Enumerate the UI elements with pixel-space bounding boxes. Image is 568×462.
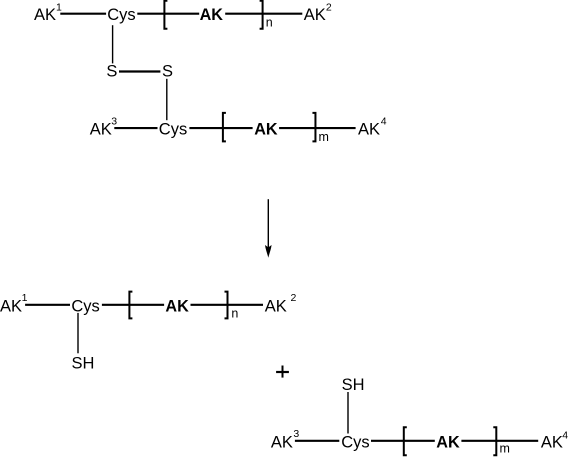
- wire Cys to AK repeat: [102, 304, 164, 306]
- chain 1: left bracket: [164, 1, 167, 29]
- svg-text:AK: AK: [271, 433, 293, 451]
- wire AK1 to Cys: [25, 304, 70, 306]
- disulfide bond S1-S2: [119, 70, 160, 72]
- svg-text:S: S: [106, 63, 117, 81]
- chain 2: right bracket: [312, 113, 315, 141]
- svg-text:n: n: [266, 15, 273, 29]
- svg-text:AK: AK: [358, 121, 380, 139]
- svg-text:S: S: [162, 63, 173, 81]
- product 2: bond SH to Cys: [347, 392, 349, 434]
- svg-text:AK: AK: [265, 297, 287, 315]
- svg-text:4: 4: [562, 429, 568, 441]
- svg-text:AK: AK: [436, 433, 460, 451]
- product 1: right bracket: [225, 292, 228, 319]
- bond Cys1 to S1: [112, 25, 114, 63]
- svg-text:Cys: Cys: [159, 121, 187, 139]
- chain 2: left bracket: [223, 113, 226, 141]
- plus sign: [276, 371, 289, 373]
- svg-text:AK: AK: [0, 297, 22, 315]
- wire AK1 to Cys: [60, 13, 106, 15]
- svg-text:SH: SH: [72, 355, 95, 373]
- svg-text:n: n: [231, 307, 238, 321]
- svg-text:AK: AK: [304, 6, 326, 24]
- product 1: left bracket: [129, 292, 132, 319]
- wire AK3 to Cys: [295, 440, 339, 442]
- svg-text:SH: SH: [342, 376, 365, 394]
- wire AK repeat to AK4: [461, 440, 538, 442]
- svg-text:1: 1: [56, 1, 62, 13]
- reaction arrow head: [265, 245, 272, 258]
- svg-text:2: 2: [291, 292, 297, 304]
- svg-text:3: 3: [111, 116, 117, 128]
- svg-text:AK: AK: [541, 433, 563, 451]
- wire Cys to AK repeat: [371, 440, 435, 442]
- product 1: bond Cys to SH: [77, 313, 79, 353]
- reaction arrow shaft: [267, 199, 269, 253]
- svg-text:3: 3: [293, 428, 299, 440]
- product 2: left bracket: [404, 427, 407, 455]
- svg-text:2: 2: [326, 1, 332, 13]
- wire Cys to AK repeat: [189, 127, 252, 129]
- svg-text:AK: AK: [254, 121, 278, 139]
- svg-text:AK: AK: [90, 121, 112, 139]
- svg-text:4: 4: [381, 116, 387, 128]
- svg-text:Cys: Cys: [107, 6, 135, 24]
- chain 1: right bracket: [260, 1, 263, 29]
- svg-text:AK: AK: [165, 297, 189, 315]
- wire AK3 to Cys: [114, 127, 157, 129]
- svg-text:AK: AK: [200, 6, 224, 24]
- product 2: right bracket: [493, 427, 496, 455]
- svg-text:m: m: [500, 441, 510, 455]
- wire AK repeat to AK4: [279, 127, 356, 129]
- wire Cys to AK repeat: [137, 13, 199, 15]
- svg-text:m: m: [319, 130, 329, 144]
- bond S2 to Cys2: [166, 79, 168, 120]
- svg-text:Cys: Cys: [71, 297, 99, 315]
- svg-text:AK: AK: [34, 6, 56, 24]
- wire AK repeat to AK2: [191, 304, 264, 306]
- svg-text:Cys: Cys: [341, 433, 369, 451]
- svg-text:1: 1: [22, 292, 28, 304]
- wire AK repeat to AK2: [225, 13, 302, 15]
